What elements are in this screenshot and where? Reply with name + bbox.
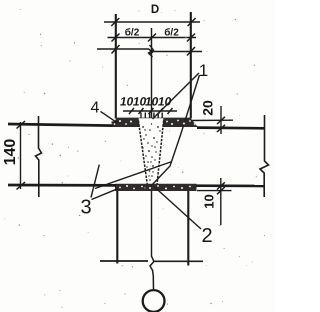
tick 10 bottom (217, 187, 225, 194)
tick 10s a (129, 108, 134, 114)
scan noise specks (5, 9, 265, 308)
svg-text:1: 1 (199, 61, 208, 80)
beam break line right (260, 115, 269, 197)
rebar stub 6 (161, 113, 163, 125)
bottom break line right part (153, 260, 203, 262)
stipple dots in joint trapezoid (142, 123, 161, 181)
leader 3 to band corner (92, 189, 118, 200)
tick 10s e (168, 108, 173, 114)
tick b2 left (112, 34, 120, 42)
rebar stub 4 (153, 113, 155, 126)
tick 20 bottom (217, 125, 225, 132)
svg-text:D: D (151, 4, 159, 16)
leader 3 slash (91, 165, 99, 198)
tick D left (111, 18, 119, 26)
tick break left (112, 45, 120, 54)
column centerline (151, 28, 153, 257)
leader arrowhead 4 (112, 121, 118, 123)
tick 20 top (217, 117, 225, 124)
dimension line b/2 (108, 37, 197, 39)
upper break line jog (149, 49, 154, 54)
beam top edge left (8, 124, 113, 126)
upper break line right part (154, 51, 203, 53)
svg-text:4: 4 (91, 100, 100, 117)
svg-text:20: 20 (200, 100, 216, 116)
white specks in top mortar band (114, 120, 196, 125)
svg-text:б/2: б/2 (125, 27, 140, 39)
dimension line 140 (20, 122, 22, 189)
section circle (143, 290, 165, 312)
extension line 20 top (190, 119, 233, 121)
tick 140 top (17, 121, 26, 129)
joint trapezoid left edge (138, 121, 147, 185)
upper break line left part (97, 48, 149, 50)
bottom break line left part (100, 260, 148, 262)
leader 2 (154, 187, 201, 230)
beam bottom edge left (8, 184, 116, 187)
tick b2 mid (148, 34, 156, 42)
svg-text:10: 10 (202, 194, 217, 208)
beam bottom edge right (196, 184, 265, 187)
extension line 10 bottom (197, 190, 232, 192)
svg-text:3: 3 (80, 197, 91, 219)
white specks in bottom mortar band (119, 185, 191, 190)
svg-text:б/2: б/2 (164, 27, 179, 39)
rebar stub 1 (140, 113, 142, 125)
tick D right (188, 18, 196, 26)
dimension line 10x4 (123, 110, 177, 112)
leader 1 to top band (153, 73, 200, 119)
svg-text:10: 10 (157, 95, 173, 109)
joint trapezoid right edge (157, 121, 164, 185)
upper column right edge (190, 12, 192, 119)
tick b2 right (187, 34, 195, 42)
upper column left edge (115, 14, 117, 119)
svg-text:140: 140 (2, 139, 19, 166)
bottom mortar band (115, 184, 197, 191)
rebar stub 3 (149, 113, 151, 126)
svg-text:2: 2 (201, 225, 212, 247)
joint trapezoid fill (139, 118, 164, 184)
tick 140 bottom (17, 182, 26, 190)
tick break right (187, 47, 195, 56)
beam top edge right (197, 126, 265, 129)
tick 10s c (149, 108, 154, 114)
lower column left edge (116, 191, 118, 264)
beam break line left (36, 116, 42, 197)
leader for label 4 (101, 111, 116, 121)
dimension line 10 (220, 178, 222, 225)
lower column right edge (187, 191, 189, 266)
leader 1 to bottom band (151, 75, 200, 187)
dimension line D (104, 21, 200, 23)
tick 10s d (158, 108, 163, 114)
top mortar band (110, 118, 198, 127)
dimension line 20 (220, 106, 222, 134)
tick 10 top (217, 182, 225, 189)
rebar stub 5 (157, 113, 159, 125)
tick 10s b (139, 108, 144, 114)
centerline break jog top (149, 45, 154, 57)
centerline break jog bottom (150, 257, 154, 291)
leader 3 long line (95, 162, 172, 189)
rebar stub 2 (144, 113, 146, 125)
